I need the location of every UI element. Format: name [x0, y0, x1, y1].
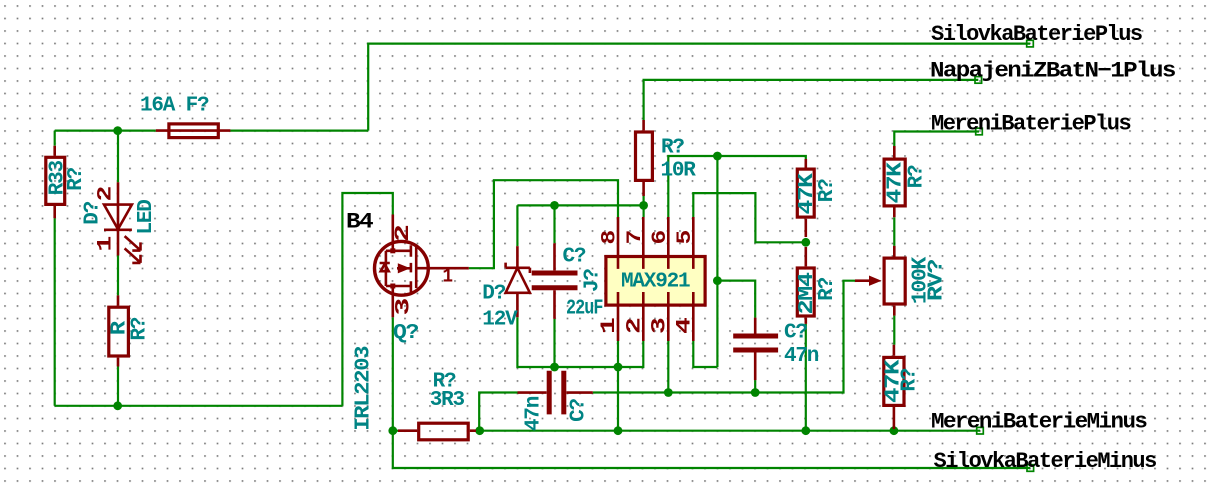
svg-text:R?: R?	[816, 179, 839, 202]
svg-text:12V: 12V	[482, 309, 518, 332]
svg-text:LED: LED	[135, 200, 158, 235]
svg-text:47K: 47K	[885, 162, 908, 204]
svg-text:2: 2	[95, 187, 118, 202]
svg-text:C?: C?	[568, 398, 591, 421]
svg-text:R?: R?	[65, 167, 88, 190]
svg-text:RV?: RV?	[926, 259, 949, 301]
svg-text:10R: 10R	[661, 160, 697, 183]
svg-text:7: 7	[624, 231, 647, 245]
svg-text:MAX921: MAX921	[621, 271, 690, 294]
svg-text:R?: R?	[906, 165, 929, 188]
svg-text:D?: D?	[81, 201, 104, 224]
svg-text:1: 1	[598, 317, 621, 334]
svg-text:C?: C?	[563, 246, 586, 269]
svg-text:B4: B4	[346, 210, 373, 235]
svg-text:3: 3	[393, 299, 416, 316]
svg-text:NapajeniZBatN−1Plus: NapajeniZBatN−1Plus	[930, 59, 1175, 84]
svg-text:47n: 47n	[523, 396, 546, 431]
svg-text:47n: 47n	[784, 345, 819, 368]
svg-text:16A F?: 16A F?	[140, 95, 209, 118]
svg-text:SilovkaBateriePlus: SilovkaBateriePlus	[931, 22, 1142, 47]
svg-text:1: 1	[95, 236, 118, 252]
svg-text:C?: C?	[784, 322, 807, 345]
svg-text:5: 5	[674, 231, 697, 245]
svg-text:R?: R?	[899, 368, 922, 391]
svg-text:Q?: Q?	[393, 322, 419, 345]
svg-text:MereniBaterieMinus: MereniBaterieMinus	[931, 410, 1147, 435]
svg-text:R?: R?	[129, 317, 152, 340]
svg-text:IRL2203: IRL2203	[353, 346, 376, 431]
svg-text:3R3: 3R3	[430, 389, 465, 412]
svg-text:J?: J?	[581, 269, 604, 292]
svg-text:SilovkaBaterieMinus: SilovkaBaterieMinus	[934, 449, 1157, 474]
svg-text:R?: R?	[816, 277, 839, 300]
svg-text:2: 2	[623, 318, 646, 334]
svg-text:3: 3	[648, 318, 671, 334]
svg-text:R?: R?	[661, 136, 684, 159]
svg-text:2: 2	[392, 225, 415, 242]
svg-text:8: 8	[599, 231, 622, 245]
svg-text:22uF: 22uF	[566, 298, 603, 321]
svg-text:MereniBateriePlus: MereniBateriePlus	[931, 112, 1130, 137]
svg-text:D?: D?	[482, 283, 505, 306]
svg-text:1: 1	[443, 266, 454, 289]
svg-text:4: 4	[673, 317, 696, 334]
svg-text:6: 6	[649, 231, 672, 245]
